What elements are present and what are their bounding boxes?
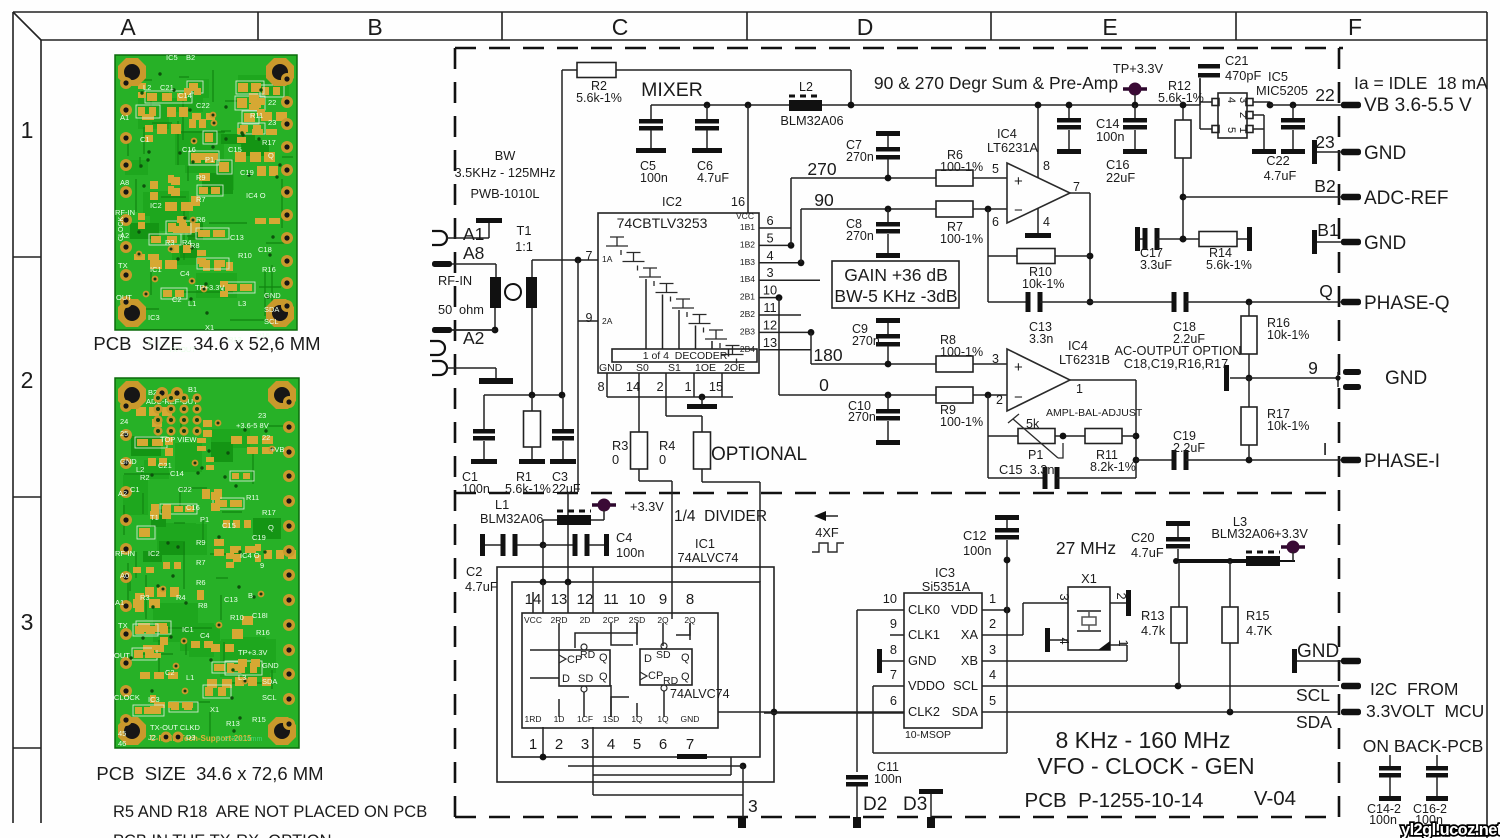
- svg-text:B: B: [367, 14, 382, 40]
- svg-text:TX-OUT CLKD: TX-OUT CLKD: [150, 723, 200, 732]
- svg-text:L1: L1: [495, 497, 509, 512]
- svg-text:C14: C14: [178, 91, 192, 100]
- svg-text:180: 180: [813, 345, 842, 365]
- svg-text:Si5351A: Si5351A: [922, 579, 971, 594]
- svg-text:TOP VIEW: TOP VIEW: [160, 435, 197, 444]
- svg-text:74ALVC74: 74ALVC74: [678, 550, 739, 565]
- svg-text:ON BACK-PCB: ON BACK-PCB: [1363, 736, 1484, 756]
- svg-text:10k-1%: 10k-1%: [1267, 328, 1309, 342]
- svg-text:270n: 270n: [852, 334, 880, 348]
- svg-text:A2: A2: [118, 489, 127, 498]
- svg-text:4XF: 4XF: [815, 525, 839, 540]
- svg-text:BW: BW: [495, 148, 517, 163]
- svg-text:100-1%: 100-1%: [940, 232, 983, 246]
- svg-text:RF-IN: RF-IN: [438, 273, 472, 288]
- svg-text:R13: R13: [228, 335, 242, 344]
- svg-text:PCB SIZE 34.6 x 52,6 MM: PCB SIZE 34.6 x 52,6 MM: [93, 333, 320, 354]
- svg-text:CLOCK: CLOCK: [118, 217, 125, 241]
- svg-text:4.7uF: 4.7uF: [697, 171, 729, 185]
- svg-text:Q: Q: [599, 652, 608, 664]
- svg-text:R16: R16: [262, 265, 276, 274]
- svg-text:A1: A1: [120, 113, 129, 122]
- svg-text:3: 3: [766, 265, 773, 280]
- svg-text:16: 16: [731, 194, 745, 209]
- svg-text:SCL: SCL: [953, 678, 978, 693]
- svg-text:1Q: 1Q: [657, 714, 669, 724]
- svg-text:SDA: SDA: [264, 305, 279, 314]
- svg-text:11: 11: [603, 591, 619, 608]
- svg-text:L1: L1: [188, 299, 196, 308]
- svg-text:3: 3: [989, 642, 996, 657]
- svg-text:5: 5: [158, 338, 162, 347]
- svg-text:SD: SD: [656, 649, 671, 661]
- svg-text:100-1%: 100-1%: [940, 160, 983, 174]
- svg-text:1B2: 1B2: [740, 239, 755, 249]
- svg-text:SDA: SDA: [952, 704, 979, 719]
- svg-text:2B3: 2B3: [740, 326, 755, 336]
- svg-text:5.6k-1%: 5.6k-1%: [576, 91, 622, 105]
- svg-text:TP+3.3V: TP+3.3V: [195, 283, 224, 292]
- svg-text:+3.3V: +3.3V: [1274, 526, 1308, 541]
- svg-text:270n: 270n: [846, 150, 874, 164]
- svg-text:9: 9: [1308, 358, 1318, 378]
- svg-text:T1: T1: [150, 513, 159, 522]
- svg-text:25: 25: [120, 429, 128, 438]
- svg-text:R15: R15: [256, 331, 270, 340]
- svg-text:5.6k-1%: 5.6k-1%: [505, 482, 551, 496]
- svg-text:7: 7: [1073, 180, 1080, 194]
- svg-text:D3: D3: [903, 794, 927, 815]
- svg-text:C18I: C18I: [252, 611, 268, 620]
- svg-text:PHASE-Q: PHASE-Q: [1364, 293, 1450, 314]
- svg-text:100n: 100n: [640, 171, 668, 185]
- svg-text:12: 12: [577, 591, 594, 608]
- svg-text:C4: C4: [200, 631, 210, 640]
- svg-text:100n: 100n: [1369, 813, 1397, 827]
- svg-text:R5 AND R18 ARE NOT PLACED ON: R5 AND R18 ARE NOT PLACED ON PCB: [113, 803, 427, 821]
- svg-text:I2C FROM: I2C FROM: [1370, 679, 1458, 699]
- svg-text:1OE: 1OE: [695, 362, 716, 374]
- svg-text:10k-1%: 10k-1%: [1267, 419, 1309, 433]
- svg-text:C2: C2: [165, 668, 175, 677]
- svg-text:CP: CP: [648, 670, 663, 682]
- svg-text:IC5: IC5: [166, 53, 178, 62]
- svg-text:11: 11: [763, 300, 776, 315]
- svg-text:GND: GND: [908, 653, 936, 668]
- svg-text:2D: 2D: [580, 615, 591, 625]
- svg-text:22: 22: [1315, 85, 1334, 105]
- svg-text:AMPL-BAL-ADJUST: AMPL-BAL-ADJUST: [1046, 407, 1143, 419]
- svg-text:R15: R15: [252, 715, 266, 724]
- svg-text:PCB IN THE TX-RX OPTION: PCB IN THE TX-RX OPTION: [113, 832, 332, 838]
- svg-text:−: −: [1014, 389, 1023, 406]
- svg-text:L2: L2: [143, 83, 151, 92]
- svg-text:24: 24: [120, 417, 128, 426]
- svg-text:R4: R4: [182, 238, 192, 247]
- svg-text:5: 5: [1225, 127, 1237, 133]
- svg-text:100n: 100n: [616, 545, 644, 560]
- svg-text:R17: R17: [262, 138, 276, 147]
- svg-text:2A: 2A: [602, 316, 613, 326]
- svg-text:X1: X1: [205, 323, 214, 332]
- svg-text:R16: R16: [256, 628, 270, 637]
- svg-text:1: 1: [529, 736, 537, 753]
- svg-text:C14: C14: [170, 469, 184, 478]
- svg-text:IC1: IC1: [695, 536, 715, 551]
- svg-text:T1: T1: [517, 223, 532, 238]
- svg-text:2OE: 2OE: [724, 362, 745, 374]
- svg-text:C13: C13: [224, 595, 238, 604]
- svg-text:Q: Q: [599, 671, 608, 683]
- svg-text:2: 2: [555, 736, 563, 753]
- svg-text:74CBTLV3253: 74CBTLV3253: [617, 215, 708, 231]
- svg-text:B2: B2: [186, 53, 195, 62]
- svg-text:C13: C13: [230, 233, 244, 242]
- svg-text:CLK1: CLK1: [908, 627, 940, 642]
- svg-text:4: 4: [766, 248, 773, 263]
- svg-text:C15: C15: [222, 521, 236, 530]
- svg-text:0: 0: [659, 452, 666, 467]
- svg-text:5.6k-1%: 5.6k-1%: [1158, 91, 1204, 105]
- svg-text:4: 4: [1057, 637, 1072, 644]
- svg-text:ohm: ohm: [459, 302, 484, 317]
- svg-text:CLK2: CLK2: [908, 704, 940, 719]
- svg-text:VB 3.6-5.5 V: VB 3.6-5.5 V: [1364, 95, 1472, 116]
- svg-text:3: 3: [1057, 593, 1072, 600]
- svg-text:10-MSOP: 10-MSOP: [905, 729, 951, 741]
- svg-text:VCC: VCC: [736, 211, 754, 221]
- svg-text:GND: GND: [1364, 143, 1406, 164]
- svg-text:GND: GND: [1385, 368, 1427, 389]
- svg-text:22: 22: [262, 433, 270, 442]
- svg-text:TX: TX: [118, 621, 128, 630]
- svg-text:2: 2: [656, 379, 663, 394]
- svg-text:GND: GND: [1297, 641, 1339, 662]
- svg-text:8: 8: [686, 591, 694, 608]
- svg-text:3: 3: [748, 796, 758, 816]
- svg-text:IC1: IC1: [182, 625, 194, 634]
- svg-text:PWB-1010L: PWB-1010L: [471, 186, 540, 201]
- svg-text:SD: SD: [578, 673, 593, 685]
- svg-text:C1: C1: [130, 485, 140, 494]
- svg-text:BLM32A06: BLM32A06: [1211, 526, 1274, 541]
- svg-text:PCB P-1255-10-14: PCB P-1255-10-14: [1025, 789, 1204, 812]
- svg-text:1RD: 1RD: [524, 714, 541, 724]
- svg-text:SCL: SCL: [262, 693, 277, 702]
- svg-text:IC2: IC2: [662, 194, 682, 209]
- svg-text:7: 7: [890, 667, 897, 682]
- svg-text:PHASE-I: PHASE-I: [1364, 451, 1440, 472]
- svg-text:C12: C12: [963, 528, 986, 543]
- svg-text:R11: R11: [246, 493, 259, 502]
- svg-text:+: +: [1014, 173, 1023, 190]
- svg-text:2B1: 2B1: [740, 292, 755, 302]
- svg-text:VCC: VCC: [524, 615, 542, 625]
- svg-text:4: 4: [989, 667, 996, 682]
- svg-text:1: 1: [1237, 127, 1249, 133]
- svg-text:L3: L3: [238, 299, 246, 308]
- svg-text:470pF: 470pF: [1225, 68, 1261, 83]
- svg-text:+VB: +VB: [270, 445, 284, 454]
- svg-text:BLM32A06: BLM32A06: [780, 113, 843, 128]
- svg-text:RF-IN: RF-IN: [115, 208, 135, 217]
- svg-text:1: 1: [21, 117, 34, 143]
- svg-text:L2: L2: [799, 80, 813, 94]
- svg-text:GAIN +36 dB: GAIN +36 dB: [844, 265, 948, 285]
- svg-text:+3.3V: +3.3V: [630, 499, 664, 514]
- svg-text:1: 1: [1076, 382, 1083, 396]
- svg-text:L1: L1: [186, 673, 194, 682]
- svg-text:Ia = IDLE 18 mA: Ia = IDLE 18 mA: [1354, 73, 1488, 93]
- svg-text:C20: C20: [1131, 530, 1154, 545]
- svg-text:R9: R9: [196, 173, 206, 182]
- svg-text:3: 3: [581, 736, 589, 753]
- svg-text:C4: C4: [616, 530, 632, 545]
- svg-text:3.3n: 3.3n: [1029, 332, 1053, 346]
- svg-text:5: 5: [766, 230, 773, 245]
- svg-text:P1: P1: [1028, 448, 1043, 462]
- svg-text:9: 9: [890, 616, 897, 631]
- svg-text:100n: 100n: [963, 543, 991, 558]
- svg-text:R3: R3: [140, 593, 150, 602]
- svg-text:B1: B1: [188, 385, 197, 394]
- svg-text:12: 12: [763, 317, 777, 332]
- svg-text:45: 45: [118, 729, 126, 738]
- svg-text:IC3: IC3: [148, 313, 160, 322]
- svg-text:C15 3.3n: C15 3.3n: [999, 462, 1055, 477]
- svg-text:C19: C19: [240, 168, 254, 177]
- svg-text:B2: B2: [1314, 176, 1335, 196]
- svg-text:R13: R13: [226, 719, 240, 728]
- svg-text:2.2uF: 2.2uF: [1173, 441, 1205, 455]
- svg-text:2: 2: [1237, 112, 1249, 118]
- svg-text:4: 4: [1225, 97, 1237, 103]
- svg-text:4.7uF: 4.7uF: [1131, 545, 1164, 560]
- svg-text:BW-5 KHz -3dB: BW-5 KHz -3dB: [834, 286, 957, 306]
- svg-text:1B3: 1B3: [740, 257, 755, 267]
- svg-text:R15: R15: [1246, 608, 1269, 623]
- svg-text:4: 4: [607, 736, 615, 753]
- svg-text:8 KHz - 160 MHz: 8 KHz - 160 MHz: [1055, 727, 1230, 753]
- svg-text:3: 3: [1237, 97, 1249, 103]
- svg-text:F: F: [1348, 14, 1362, 40]
- svg-text:MIC5205: MIC5205: [1256, 83, 1308, 98]
- svg-text:74ALVC74: 74ALVC74: [670, 687, 730, 701]
- svg-text:OPTIONAL: OPTIONAL: [711, 444, 807, 465]
- svg-text:R7: R7: [196, 195, 206, 204]
- svg-text:0: 0: [612, 452, 619, 467]
- svg-text:5: 5: [989, 693, 996, 708]
- svg-text:X1: X1: [1081, 571, 1097, 586]
- svg-text:GND: GND: [681, 714, 700, 724]
- svg-text:S0: S0: [636, 362, 649, 374]
- svg-text:GND: GND: [120, 457, 137, 466]
- svg-text:+3.6-5 8V: +3.6-5 8V: [236, 421, 269, 430]
- svg-text:−: −: [1014, 202, 1023, 219]
- svg-text:2: 2: [21, 367, 34, 393]
- svg-text:10: 10: [883, 591, 897, 606]
- svg-text:R4: R4: [176, 593, 186, 602]
- svg-text:B1: B1: [1317, 220, 1338, 240]
- svg-text:6: 6: [659, 736, 667, 753]
- svg-text:C4: C4: [180, 269, 190, 278]
- svg-text:X1: X1: [210, 705, 219, 714]
- svg-text:L3: L3: [238, 673, 246, 682]
- svg-text:R17: R17: [262, 508, 276, 517]
- svg-text:22: 22: [268, 98, 276, 107]
- svg-text:C18,C19,R16,R17: C18,C19,R16,R17: [1124, 356, 1229, 371]
- svg-text:C: C: [612, 14, 629, 40]
- svg-text:I: I: [1323, 439, 1328, 459]
- svg-text:1CF: 1CF: [577, 714, 593, 724]
- svg-text:D: D: [644, 653, 652, 665]
- svg-text:A: A: [120, 14, 136, 40]
- svg-text:R7: R7: [196, 558, 206, 567]
- svg-text:23: 23: [268, 118, 276, 127]
- svg-text:Q: Q: [681, 671, 690, 683]
- svg-text:CLOCK: CLOCK: [114, 693, 140, 702]
- svg-text:+: +: [1014, 359, 1023, 376]
- svg-text:100n: 100n: [1096, 129, 1124, 144]
- svg-text:1/4 DIVIDER: 1/4 DIVIDER: [674, 508, 767, 525]
- svg-text:Q: Q: [681, 652, 690, 664]
- svg-text:IC3: IC3: [148, 695, 160, 704]
- svg-text:LT6231A: LT6231A: [987, 140, 1038, 155]
- svg-text:SCL: SCL: [264, 317, 279, 326]
- svg-text:22uF: 22uF: [1106, 170, 1135, 185]
- svg-text:GND: GND: [599, 362, 623, 374]
- svg-text:A8: A8: [120, 178, 129, 187]
- svg-text:A1: A1: [463, 224, 484, 244]
- svg-text:IC4 O: IC4 O: [246, 191, 266, 200]
- svg-text:46: 46: [118, 739, 126, 748]
- svg-text:5: 5: [992, 162, 999, 176]
- svg-text:1: 1: [989, 591, 996, 606]
- svg-text:GND: GND: [262, 661, 279, 670]
- svg-text:C21: C21: [160, 83, 174, 92]
- svg-text:3: 3: [21, 609, 34, 635]
- svg-text:15: 15: [709, 379, 723, 394]
- svg-text:XB: XB: [961, 653, 978, 668]
- svg-text:4.7k: 4.7k: [1141, 623, 1166, 638]
- svg-text:9: 9: [586, 311, 593, 325]
- svg-text:RF-IN: RF-IN: [115, 549, 135, 558]
- svg-text:R4: R4: [659, 438, 675, 453]
- svg-text:R10: R10: [230, 613, 244, 622]
- svg-text:P1: P1: [200, 515, 209, 524]
- svg-text:C21: C21: [1225, 53, 1248, 68]
- svg-text:C16: C16: [182, 145, 196, 154]
- svg-text:BLE-36x74mm: BLE-36x74mm: [216, 736, 262, 743]
- svg-text:7: 7: [586, 249, 593, 263]
- svg-text:1 of 4 DECODER: 1 of 4 DECODER: [643, 350, 728, 362]
- svg-text:5: 5: [633, 736, 641, 753]
- svg-text:6: 6: [890, 693, 897, 708]
- svg-text:SCL: SCL: [1296, 685, 1330, 705]
- svg-text:27 MHz: 27 MHz: [1056, 538, 1116, 558]
- svg-text:IC1: IC1: [150, 265, 162, 274]
- svg-text:R8: R8: [198, 601, 208, 610]
- svg-text:MIXER: MIXER: [641, 79, 703, 101]
- svg-text:1B4: 1B4: [740, 274, 755, 284]
- svg-text:yl2gl.ucoz.net: yl2gl.ucoz.net: [1401, 821, 1500, 838]
- svg-text:R10: R10: [238, 251, 252, 260]
- svg-text:D2: D2: [863, 794, 887, 815]
- svg-text:8: 8: [890, 642, 897, 657]
- svg-text:2: 2: [989, 616, 996, 631]
- svg-text:R3: R3: [612, 438, 628, 453]
- svg-text:1A: 1A: [602, 254, 613, 264]
- svg-text:4.7uF: 4.7uF: [465, 579, 498, 594]
- svg-text:23: 23: [258, 411, 266, 420]
- svg-text:90: 90: [814, 190, 834, 210]
- svg-text:22uF: 22uF: [552, 482, 581, 496]
- svg-text:270n: 270n: [848, 410, 876, 424]
- svg-text:VDD: VDD: [951, 602, 978, 617]
- svg-text:6: 6: [766, 213, 773, 228]
- svg-text:3.5KHz - 125MHz: 3.5KHz - 125MHz: [455, 165, 556, 180]
- svg-text:3: 3: [992, 352, 999, 366]
- svg-text:3.3VOLT MCU: 3.3VOLT MCU: [1366, 701, 1484, 721]
- svg-text:5.6k-1%: 5.6k-1%: [1206, 258, 1252, 272]
- svg-text:R2: R2: [140, 473, 150, 482]
- svg-text:0: 0: [819, 375, 829, 395]
- svg-text:100-1%: 100-1%: [940, 415, 983, 429]
- svg-text:Q: Q: [268, 151, 274, 160]
- svg-text:C19: C19: [252, 533, 266, 542]
- svg-text:270n: 270n: [846, 229, 874, 243]
- svg-text:90 & 270 Degr Sum & Pre-Amp: 90 & 270 Degr Sum & Pre-Amp: [874, 73, 1118, 93]
- svg-text:C1: C1: [140, 135, 150, 144]
- svg-text:13: 13: [551, 591, 568, 608]
- svg-text:TP+3.3V: TP+3.3V: [238, 648, 267, 657]
- svg-text:IC2: IC2: [148, 549, 160, 558]
- svg-text:TP+3.3V: TP+3.3V: [1113, 61, 1164, 76]
- svg-text:D: D: [562, 673, 570, 685]
- svg-text:A2: A2: [463, 328, 484, 348]
- svg-text:IC2: IC2: [150, 201, 162, 210]
- svg-text:XA: XA: [961, 627, 979, 642]
- svg-text:A1: A1: [115, 598, 124, 607]
- svg-text:SDA: SDA: [262, 677, 277, 686]
- svg-text:RD: RD: [580, 649, 596, 661]
- svg-text:PCB SIZE 34.6 x 72,6 MM: PCB SIZE 34.6 x 72,6 MM: [96, 763, 323, 784]
- svg-text:ADC-REF: ADC-REF: [1364, 188, 1448, 209]
- svg-text:P1: P1: [205, 155, 214, 164]
- svg-text:IC4: IC4: [1068, 338, 1088, 353]
- svg-text:CLK0: CLK0: [908, 602, 940, 617]
- svg-text:IC4: IC4: [997, 126, 1017, 141]
- svg-text:50: 50: [438, 302, 452, 317]
- svg-text:E: E: [1102, 14, 1117, 40]
- svg-text:R3: R3: [165, 238, 175, 247]
- svg-text:9: 9: [659, 591, 667, 608]
- svg-text:IC5: IC5: [1268, 69, 1288, 84]
- svg-text:C2: C2: [466, 564, 482, 579]
- svg-text:BLM32A06: BLM32A06: [480, 511, 543, 526]
- svg-text:A0: A0: [120, 571, 129, 580]
- svg-text:GND: GND: [264, 291, 281, 300]
- svg-text:C2: C2: [172, 295, 182, 304]
- svg-text:100-1%: 100-1%: [940, 345, 983, 359]
- svg-text:4.7uF: 4.7uF: [1264, 168, 1297, 183]
- svg-text:1: 1: [684, 379, 691, 394]
- svg-text:Q: Q: [268, 523, 274, 532]
- svg-text:OUT: OUT: [114, 651, 130, 660]
- svg-text:3.3uF: 3.3uF: [1140, 258, 1172, 272]
- svg-text:C16: C16: [186, 503, 200, 512]
- svg-text:5k: 5k: [1026, 417, 1040, 431]
